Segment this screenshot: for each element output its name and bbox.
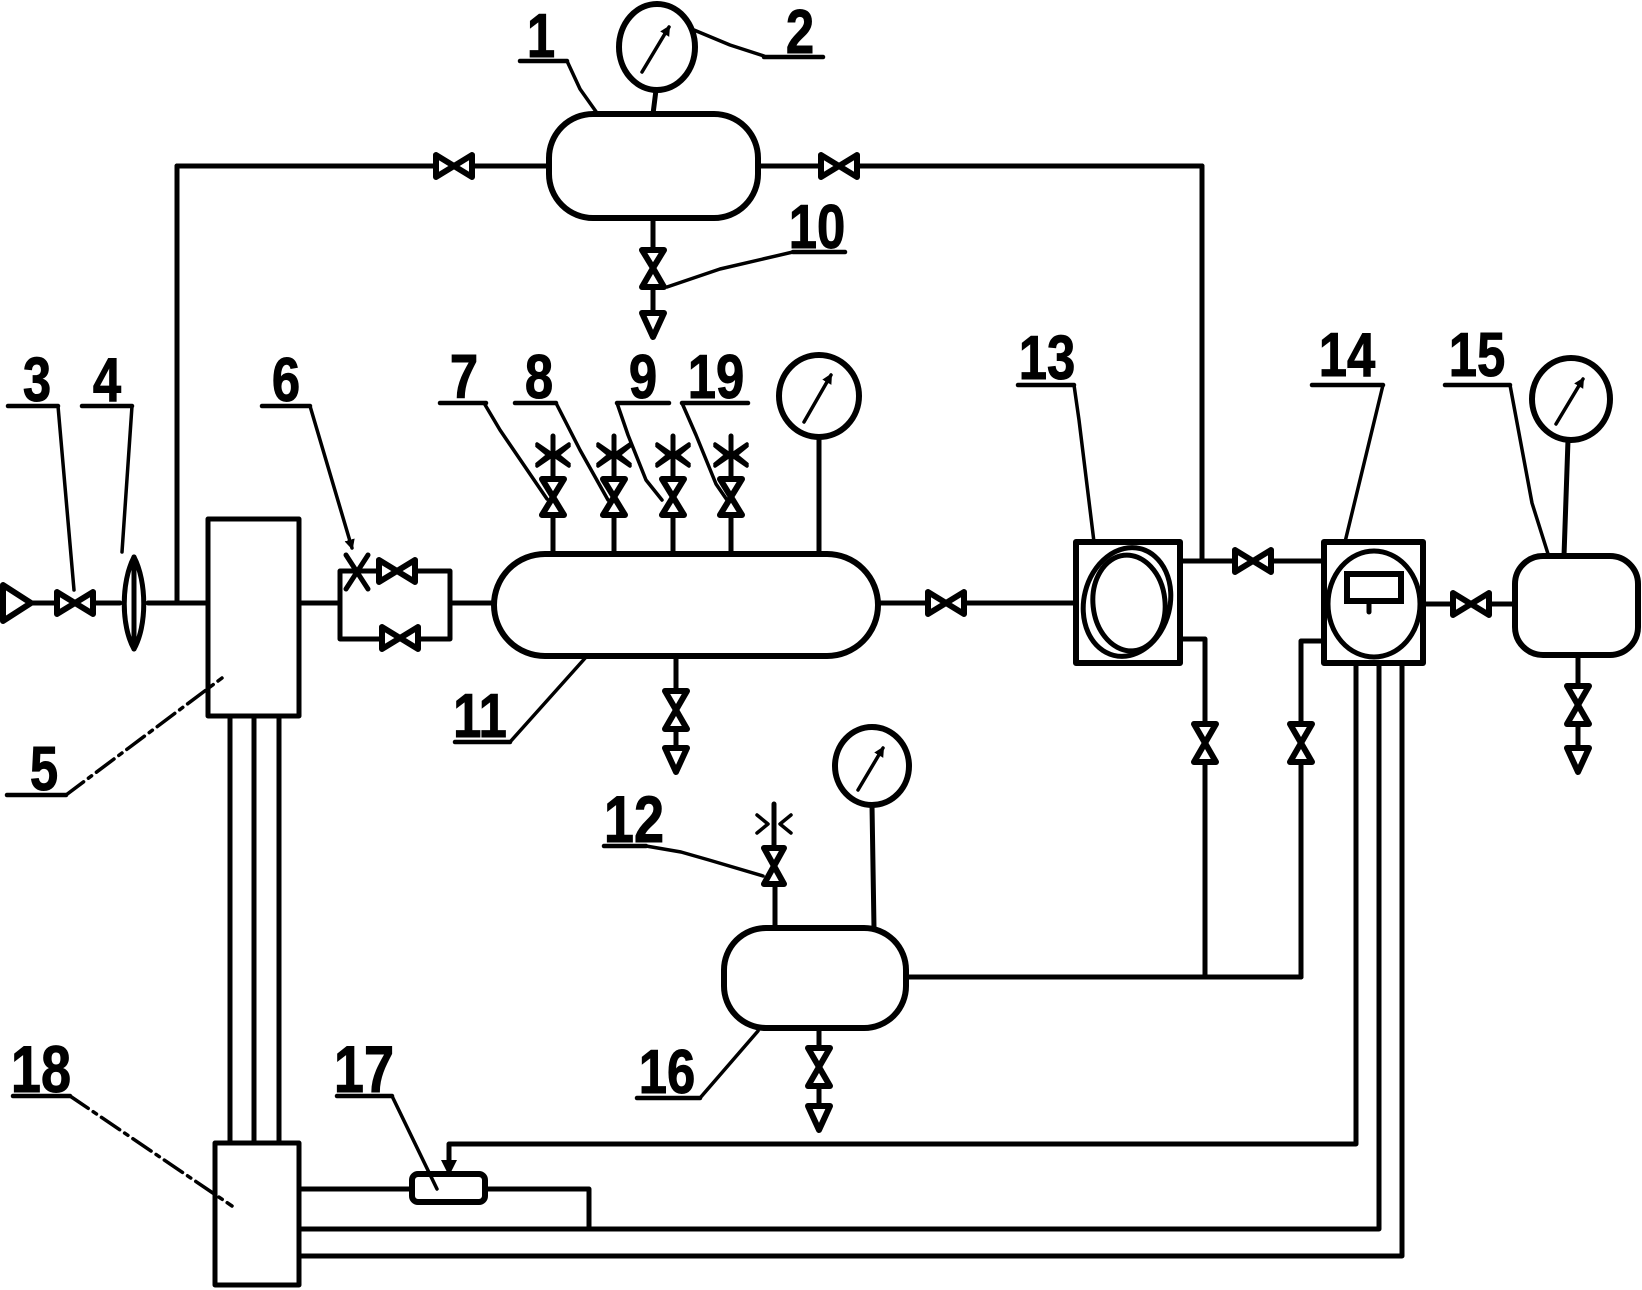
label 7	[440, 343, 547, 499]
wire inlet to valve 3	[31, 601, 57, 606]
label 14	[1312, 321, 1383, 542]
filter unit 13	[1072, 538, 1182, 666]
wire valve to meter 14	[1271, 559, 1324, 564]
valve 3	[57, 592, 93, 614]
label 15	[1445, 321, 1549, 557]
wire vessel 16 to drain risers	[906, 975, 1301, 980]
gas meter 14	[1324, 542, 1423, 663]
valve on bypass top	[379, 560, 415, 582]
wire valve 3 to orifice 4	[93, 601, 120, 606]
label 5	[7, 678, 222, 804]
label 9	[617, 343, 669, 500]
valve before vessel 15	[1453, 593, 1489, 615]
sampling valve 8 assembly	[598, 436, 630, 554]
pressure gauge 2	[619, 4, 695, 114]
label 2	[694, 0, 823, 67]
svg-text:15: 15	[1449, 321, 1506, 390]
orifice lens 4	[124, 557, 144, 649]
sampling valve 9 assembly	[657, 436, 689, 554]
valve on bypass bottom	[382, 627, 418, 649]
drain of meter 14	[1290, 641, 1324, 977]
wire filter 13 top to valve	[1180, 559, 1235, 564]
pressure gauge on vessel 11	[779, 355, 859, 554]
wire meter 14 to valve	[1423, 602, 1453, 607]
valve top-right of vessel 1	[821, 155, 857, 177]
wire valve to vessel	[1489, 602, 1515, 607]
regulator unit 5	[208, 519, 299, 716]
wire stem A below unit 5	[228, 716, 233, 1143]
label 19	[682, 343, 748, 500]
drain valve under vessel 11	[665, 656, 687, 772]
signal wire 18 to meter 14 outer	[299, 663, 1402, 1256]
label 8	[515, 343, 608, 500]
label 17	[334, 1032, 437, 1189]
throttle cross of 6	[346, 555, 368, 589]
label 12	[604, 782, 763, 876]
calibration vessel 1	[549, 114, 758, 218]
outlet vessel at 15	[1515, 556, 1638, 655]
separator vessel 11	[494, 554, 878, 656]
pressure gauge 15	[1532, 358, 1610, 556]
wire 18 to sensor 17	[299, 1187, 412, 1192]
signal wire 18 to meter 14 middle	[299, 663, 1379, 1229]
wire stem B below unit 5	[252, 716, 257, 1143]
sampling valve 19 assembly	[715, 436, 747, 554]
svg-text:14: 14	[1319, 321, 1376, 390]
wire orifice to regulator 5	[148, 601, 208, 606]
drain of filter 13	[1180, 639, 1216, 977]
wire sensor 17 to step	[485, 1189, 589, 1229]
label 1	[520, 2, 597, 113]
sensor 17	[412, 1174, 485, 1202]
top bypass run	[177, 166, 1202, 561]
reference vessel 16	[724, 928, 906, 1028]
label 6	[262, 346, 352, 548]
label 13	[1018, 324, 1094, 542]
drain valve under vessel 15	[1567, 655, 1589, 772]
valve top-left of vessel 1	[436, 155, 472, 177]
wire valve to filter 13	[964, 601, 1076, 606]
wire vessel 11 to valve	[878, 601, 928, 606]
valve between 13 and 14	[1235, 550, 1271, 572]
drain valve under vessel 16	[808, 1028, 830, 1130]
signal wire meter 14 to sensor 17	[449, 663, 1356, 1163]
label 3	[8, 346, 74, 590]
vent valve 12 assembly	[757, 804, 791, 928]
bypass block 6 frame	[340, 571, 450, 639]
inlet nozzle	[3, 585, 31, 621]
drain valve 10 under vessel 1	[642, 218, 664, 337]
wire unit 5 to bypass block 6	[299, 601, 340, 606]
label 11	[453, 656, 587, 751]
recorder unit 18	[215, 1143, 299, 1285]
label 4	[82, 346, 132, 552]
wire bypass block to vessel 11	[450, 601, 494, 606]
pressure gauge on vessel 16	[835, 727, 909, 928]
arrow onto sensor 17	[441, 1160, 457, 1176]
label 18	[11, 1032, 232, 1206]
wire stem C below unit 5	[277, 716, 282, 1143]
wire riser to top bypass line	[175, 166, 180, 603]
sampling valve 7 assembly	[537, 436, 569, 554]
label 10	[667, 193, 845, 287]
valve after vessel 11	[928, 592, 964, 614]
label 16	[637, 1031, 758, 1107]
